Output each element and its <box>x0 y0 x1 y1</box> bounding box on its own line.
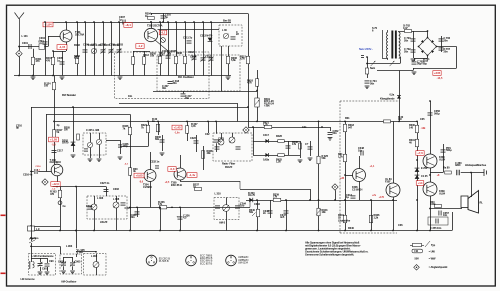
svg-text:+1,45: +1,45 <box>173 126 181 130</box>
svg-text:Bm-2B: Bm-2B <box>223 19 231 23</box>
svg-text:5,6k: 5,6k <box>231 58 236 62</box>
svg-text:Typ: Typ <box>431 243 436 247</box>
svg-text:+170: +170 <box>379 196 385 199</box>
svg-text:R31: R31 <box>345 116 350 120</box>
svg-text:C311 7p: C311 7p <box>183 36 193 40</box>
svg-text:5,6k: 5,6k <box>74 56 79 60</box>
svg-text:1n0: 1n0 <box>240 204 245 208</box>
svg-text:UM 6234: UM 6234 <box>238 260 248 264</box>
svg-text:17k: 17k <box>158 202 163 206</box>
svg-text:+14: +14 <box>418 181 423 185</box>
svg-text:-13k: -13k <box>421 127 426 130</box>
svg-text:-14,5: -14,5 <box>437 77 443 80</box>
svg-text:= Abgleichpunkt: = Abgleichpunkt <box>429 265 448 269</box>
svg-text:470: 470 <box>50 192 55 196</box>
svg-text:R340: R340 <box>348 226 354 230</box>
svg-text:1μ5: 1μ5 <box>159 53 164 57</box>
svg-text:Ratio- Filter: Ratio- Filter <box>222 162 235 166</box>
svg-text:C315: C315 <box>190 55 196 59</box>
svg-text:60k: 60k <box>155 137 160 141</box>
svg-text:10p: 10p <box>358 148 363 152</box>
svg-text:C312: C312 <box>143 53 149 57</box>
svg-text:100k: 100k <box>430 202 436 206</box>
svg-text:10k: 10k <box>150 54 155 58</box>
svg-text:L 903: L 903 <box>66 244 73 248</box>
svg-text:C 355 10n: C 355 10n <box>430 226 442 230</box>
svg-text:17k: 17k <box>273 195 278 199</box>
svg-text:+1,1: +1,1 <box>370 165 375 168</box>
svg-text:50k: 50k <box>249 210 254 214</box>
svg-text:UL84: UL84 <box>439 157 446 161</box>
svg-text:L 306: L 306 <box>97 196 104 200</box>
svg-text:CV3960: CV3960 <box>143 185 152 189</box>
svg-text:0,63a: 0,63a <box>263 158 270 162</box>
svg-text:C902: C902 <box>58 260 64 264</box>
svg-text:0,47: 0,47 <box>403 26 408 30</box>
svg-text:50V: 50V <box>415 257 420 261</box>
svg-text:OA 70: OA 70 <box>248 193 256 197</box>
svg-text:Netz: Netz <box>370 66 376 70</box>
svg-text:L 901 Ferritantenne: L 901 Ferritantenne <box>32 254 55 258</box>
svg-text:20n: 20n <box>404 38 409 42</box>
svg-text:+0,65: +0,65 <box>135 174 143 178</box>
svg-text:22n: 22n <box>131 215 136 219</box>
svg-text:30n: 30n <box>162 86 167 90</box>
svg-text:+8,4: +8,4 <box>125 23 131 27</box>
svg-text:C327 4n: C327 4n <box>100 181 110 185</box>
svg-text:C 325 L 326: C 325 L 326 <box>86 128 100 132</box>
svg-text:1,2k: 1,2k <box>374 215 379 219</box>
svg-text:+1,05: +1,05 <box>50 138 58 142</box>
svg-text:56k: 56k <box>167 52 172 56</box>
svg-text:2SC76A: 2SC76A <box>75 33 84 37</box>
svg-text:C316 4n: C316 4n <box>23 173 33 177</box>
svg-text:= UW: = UW <box>429 250 436 254</box>
svg-text:100: 100 <box>44 84 49 88</box>
svg-text:470: 470 <box>36 59 41 63</box>
svg-text:C301: C301 <box>22 41 28 45</box>
svg-text:+0,5: +0,5 <box>165 182 170 184</box>
svg-text:C90: C90 <box>49 259 54 263</box>
svg-text:50n: 50n <box>370 81 375 85</box>
svg-text:C313 N470: C313 N470 <box>200 34 213 38</box>
svg-text:C41: C41 <box>302 125 307 129</box>
svg-text:ESC 86 B: ESC 86 B <box>171 183 182 187</box>
svg-text:LW-ZF: LW-ZF <box>100 220 108 224</box>
svg-text:C32: C32 <box>205 132 210 136</box>
svg-text:4,7k: 4,7k <box>247 81 252 85</box>
svg-text:L 308: L 308 <box>113 197 120 201</box>
svg-text:C317: C317 <box>57 149 63 153</box>
svg-text:10μ: 10μ <box>79 250 84 254</box>
svg-text:C417: C417 <box>263 133 269 137</box>
svg-text:LW-Antenne: LW-Antenne <box>21 277 36 281</box>
svg-text:10n: 10n <box>128 94 133 98</box>
svg-text:L 101: L 101 <box>22 34 29 38</box>
svg-text:C332 1n: C332 1n <box>150 160 160 164</box>
svg-text:1,7k: 1,7k <box>338 154 343 158</box>
svg-text:F307: F307 <box>385 179 391 183</box>
svg-text:-1,15: -1,15 <box>59 45 66 49</box>
svg-text:R308: R308 <box>176 51 182 55</box>
svg-text:L 30: L 30 <box>222 28 227 32</box>
svg-text:Drehko: Drehko <box>30 236 39 240</box>
svg-text:947: 947 <box>348 125 353 129</box>
svg-text:+10k: +10k <box>264 104 270 108</box>
svg-text:C309: C309 <box>109 43 115 47</box>
svg-text:Gemessene Schalterstellungen d: Gemessene Schalterstellungen dargestellt… <box>305 253 354 257</box>
svg-text:L303: L303 <box>91 43 97 47</box>
svg-text:-1,2: -1,2 <box>138 44 143 48</box>
svg-text:C316: C316 <box>35 166 41 168</box>
svg-text:50k: 50k <box>322 156 327 160</box>
svg-text:C302: C302 <box>113 187 119 191</box>
svg-text:3200: 3200 <box>455 163 461 167</box>
svg-text:+245: +245 <box>434 71 441 75</box>
svg-text:UL84: UL84 <box>439 191 446 195</box>
svg-text:C?: C? <box>305 142 309 146</box>
svg-text:Ra 80: Ra 80 <box>443 166 450 170</box>
svg-text:AM-3: AM-3 <box>219 221 226 225</box>
svg-text:CS 95CH: CS 95CH <box>352 187 362 191</box>
svg-text:OA70: OA70 <box>62 141 69 145</box>
svg-text:1M: 1M <box>398 117 401 121</box>
svg-text:C344: C344 <box>254 202 260 206</box>
svg-text:1M: 1M <box>64 128 67 132</box>
svg-text:±10: ±10 <box>414 249 419 253</box>
svg-text:4,7k: 4,7k <box>191 124 196 128</box>
svg-text:C303: C303 <box>117 43 123 47</box>
svg-text:FM-Tastatur: FM-Tastatur <box>62 93 76 97</box>
svg-text:20n: 20n <box>404 49 409 53</box>
svg-text:= WW: = WW <box>429 257 436 261</box>
svg-text:C304: C304 <box>86 204 92 208</box>
svg-text:+12,6: +12,6 <box>52 182 59 186</box>
svg-text:4n5: 4n5 <box>280 215 285 219</box>
svg-text:C905: C905 <box>75 260 81 264</box>
svg-text:C36: C36 <box>398 223 403 227</box>
svg-text:-0,2: -0,2 <box>161 32 166 35</box>
svg-text:C316: C316 <box>205 55 211 59</box>
svg-text:-1,4v: -1,4v <box>189 173 196 177</box>
svg-text:20n: 20n <box>444 38 449 42</box>
svg-text:20n: 20n <box>444 49 449 53</box>
svg-text:C305: C305 <box>125 206 131 210</box>
svg-text:Lautstärke: Lautstärke <box>338 219 351 223</box>
svg-text:Hörkapsel/Büchse: Hörkapsel/Büchse <box>465 163 487 167</box>
svg-text:140: 140 <box>409 125 414 129</box>
svg-text:0,5a: 0,5a <box>390 93 395 97</box>
svg-text:R426: R426 <box>276 134 282 138</box>
svg-text:20n: 20n <box>333 131 338 135</box>
svg-text:C306: C306 <box>83 43 89 47</box>
svg-text:500μ: 500μ <box>434 111 440 115</box>
svg-text:E 250: E 250 <box>421 166 428 170</box>
svg-text:C901: C901 <box>42 267 48 271</box>
svg-text:+28: +28 <box>340 177 345 180</box>
svg-text:50μ+50μ: 50μ+50μ <box>417 62 427 66</box>
svg-text:C1 25: C1 25 <box>421 174 428 178</box>
svg-text:1μ: 1μ <box>346 195 349 199</box>
svg-text:10k: 10k <box>322 210 327 214</box>
svg-text:+7,6: +7,6 <box>417 151 423 155</box>
svg-text:FM- Oszillator: FM- Oszillator <box>178 75 194 79</box>
svg-text:1,7k: 1,7k <box>263 123 268 127</box>
svg-text:30n: 30n <box>185 96 190 100</box>
svg-text:L 310: L 310 <box>215 192 222 196</box>
svg-text:C35: C35 <box>420 117 425 121</box>
svg-text:+2v: +2v <box>372 194 377 197</box>
svg-text:30n: 30n <box>173 81 178 85</box>
svg-text:ECC 85T B: ECC 85T B <box>200 261 213 265</box>
svg-text:-1,6v: -1,6v <box>174 133 180 135</box>
svg-text:PL 505 B: PL 505 B <box>159 259 169 263</box>
svg-text:C308: C308 <box>100 43 106 47</box>
svg-text:R102: R102 <box>74 43 80 47</box>
svg-text:1,26: 1,26 <box>276 160 281 164</box>
svg-text:AM-Oszillator: AM-Oszillator <box>61 280 77 284</box>
svg-text:C322: C322 <box>190 136 196 140</box>
svg-text:Netz 220V~: Netz 220V~ <box>359 47 373 51</box>
svg-text:-0,3: -0,3 <box>170 167 175 171</box>
svg-text:470: 470 <box>46 58 51 62</box>
svg-text:17k: 17k <box>292 142 297 146</box>
svg-text:500μ: 500μ <box>446 148 452 152</box>
svg-text:10n: 10n <box>443 213 448 217</box>
svg-text:Klangblende: Klangblende <box>380 97 395 101</box>
svg-text:2AC 3B10: 2AC 3B10 <box>50 160 62 164</box>
svg-text:40k: 40k <box>207 151 212 155</box>
svg-text:4,7k: 4,7k <box>240 57 245 61</box>
svg-text:RL: RL <box>480 201 484 205</box>
svg-text:FM-ZF: FM-ZF <box>225 165 233 169</box>
